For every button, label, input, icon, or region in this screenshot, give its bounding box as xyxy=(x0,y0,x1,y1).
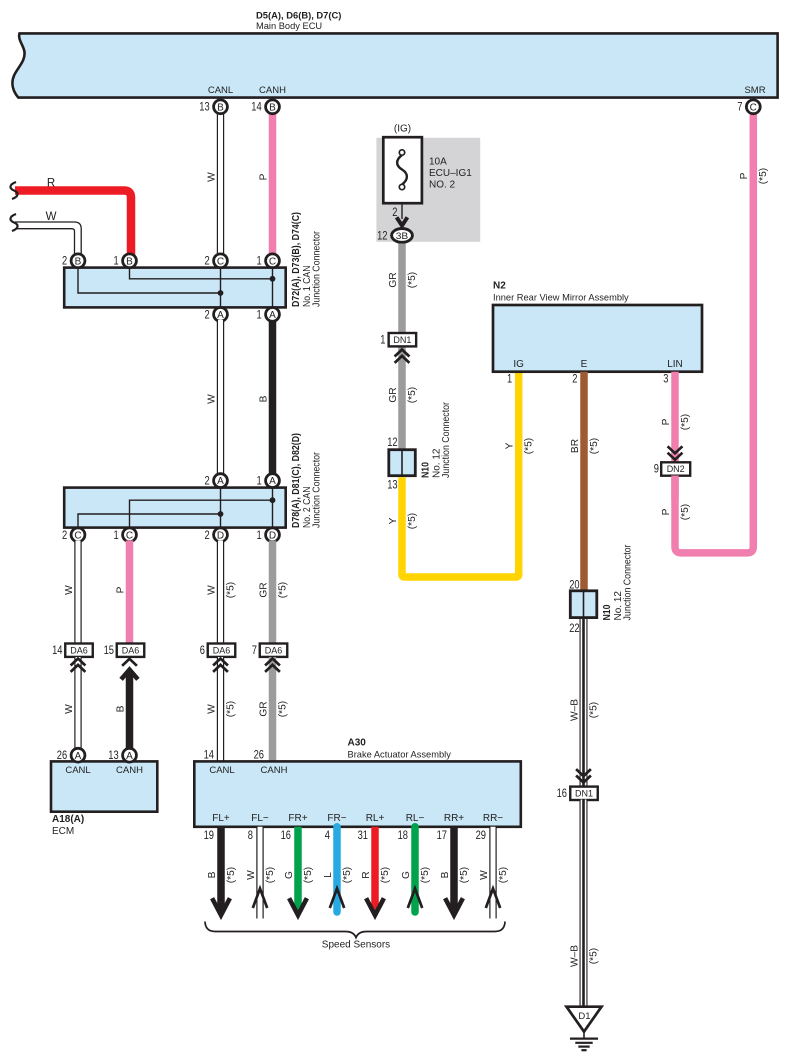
svg-text:NO. 2: NO. 2 xyxy=(429,180,456,191)
svg-text:N10: N10 xyxy=(602,604,613,620)
svg-text:CANL: CANL xyxy=(65,765,90,776)
svg-text:Y: Y xyxy=(388,517,399,524)
svg-text:W–B: W–B xyxy=(569,699,580,721)
svg-text:A: A xyxy=(269,476,276,487)
svg-text:W: W xyxy=(206,172,217,182)
svg-text:D: D xyxy=(269,530,276,541)
svg-text:C: C xyxy=(126,530,133,541)
svg-text:A18(A): A18(A) xyxy=(52,814,84,825)
svg-text:(*5): (*5) xyxy=(342,867,353,883)
svg-text:(*5): (*5) xyxy=(524,438,535,454)
svg-text:(*5): (*5) xyxy=(265,867,276,883)
svg-text:N2: N2 xyxy=(493,281,506,292)
svg-text:17: 17 xyxy=(437,830,447,842)
svg-text:31: 31 xyxy=(358,830,368,842)
svg-text:C: C xyxy=(750,102,757,113)
svg-text:(*5): (*5) xyxy=(380,867,391,883)
svg-text:1: 1 xyxy=(507,374,512,386)
svg-text:26: 26 xyxy=(57,750,67,762)
svg-text:W–B: W–B xyxy=(569,945,580,967)
svg-text:Junction Connector: Junction Connector xyxy=(312,451,323,528)
svg-text:C: C xyxy=(269,256,276,267)
svg-text:LIN: LIN xyxy=(667,359,683,370)
svg-text:29: 29 xyxy=(476,830,486,842)
svg-text:B: B xyxy=(440,871,451,878)
svg-text:D78(A), D81(C), D82(D): D78(A), D81(C), D82(D) xyxy=(291,433,302,528)
svg-text:W: W xyxy=(206,394,217,404)
svg-text:B: B xyxy=(115,705,126,712)
svg-text:DA6: DA6 xyxy=(265,645,283,655)
svg-text:(*5): (*5) xyxy=(588,702,599,718)
svg-text:13: 13 xyxy=(199,102,209,114)
svg-text:15: 15 xyxy=(104,645,114,657)
svg-text:14: 14 xyxy=(52,645,63,657)
svg-text:(*5): (*5) xyxy=(420,867,431,883)
svg-text:CANH: CANH xyxy=(116,765,143,776)
svg-text:C: C xyxy=(74,530,81,541)
svg-text:G: G xyxy=(401,871,412,879)
svg-text:A: A xyxy=(269,310,276,321)
svg-text:E: E xyxy=(581,359,588,370)
svg-text:CANH: CANH xyxy=(259,85,286,96)
svg-text:4: 4 xyxy=(325,830,331,842)
svg-text:(*5): (*5) xyxy=(758,168,769,184)
svg-text:SMR: SMR xyxy=(744,85,765,96)
svg-text:2: 2 xyxy=(205,475,210,487)
svg-text:(*5): (*5) xyxy=(225,582,236,598)
svg-text:CANH: CANH xyxy=(261,765,288,776)
svg-text:D: D xyxy=(217,530,224,541)
svg-text:1: 1 xyxy=(257,256,262,268)
svg-text:A30: A30 xyxy=(348,738,367,749)
svg-text:(*5): (*5) xyxy=(459,867,470,883)
svg-text:1: 1 xyxy=(257,530,262,542)
svg-text:(*5): (*5) xyxy=(680,504,691,520)
svg-text:12: 12 xyxy=(377,231,387,243)
svg-text:(*5): (*5) xyxy=(407,513,418,529)
svg-text:3B: 3B xyxy=(396,231,409,242)
svg-text:B: B xyxy=(258,395,269,402)
svg-text:P: P xyxy=(739,172,750,179)
svg-text:RL+: RL+ xyxy=(366,813,385,824)
svg-text:W: W xyxy=(64,704,75,714)
svg-text:8: 8 xyxy=(248,830,253,842)
svg-text:BR: BR xyxy=(570,439,581,453)
svg-text:FR+: FR+ xyxy=(288,813,307,824)
svg-text:RL−: RL− xyxy=(406,813,425,824)
svg-text:10A: 10A xyxy=(429,157,447,168)
svg-text:Brake Actuator Assembly: Brake Actuator Assembly xyxy=(348,750,452,760)
svg-text:2: 2 xyxy=(62,256,67,268)
svg-text:C: C xyxy=(217,256,224,267)
svg-text:(*5): (*5) xyxy=(277,701,288,717)
svg-text:CANL: CANL xyxy=(208,85,233,96)
svg-text:6: 6 xyxy=(200,645,205,657)
svg-text:1: 1 xyxy=(114,530,119,542)
svg-text:Junction Connector: Junction Connector xyxy=(623,544,634,621)
svg-text:DA6: DA6 xyxy=(122,645,140,655)
svg-text:Main Body ECU: Main Body ECU xyxy=(256,21,322,31)
svg-text:W: W xyxy=(206,704,217,714)
svg-text:FL+: FL+ xyxy=(212,813,230,824)
svg-text:(*5): (*5) xyxy=(589,438,600,454)
svg-text:13: 13 xyxy=(108,750,118,762)
svg-text:9: 9 xyxy=(654,464,659,476)
svg-text:B: B xyxy=(126,256,133,267)
svg-text:R: R xyxy=(47,178,55,190)
svg-text:(*5): (*5) xyxy=(498,867,509,883)
svg-text:16: 16 xyxy=(281,830,291,842)
svg-text:Junction Connector: Junction Connector xyxy=(441,401,452,478)
svg-text:Y: Y xyxy=(505,442,516,449)
svg-text:DN1: DN1 xyxy=(575,789,593,799)
svg-text:2: 2 xyxy=(205,530,210,542)
svg-text:A: A xyxy=(75,751,82,762)
svg-text:B: B xyxy=(269,102,276,113)
svg-text:Inner Rear View Mirror Assembl: Inner Rear View Mirror Assembly xyxy=(493,293,629,303)
svg-text:DN2: DN2 xyxy=(667,464,685,474)
svg-text:ECU–IG1: ECU–IG1 xyxy=(429,168,472,179)
svg-text:2: 2 xyxy=(62,530,67,542)
svg-text:FR−: FR− xyxy=(327,813,346,824)
svg-text:(*5): (*5) xyxy=(588,948,599,964)
svg-text:RR−: RR− xyxy=(483,813,503,824)
svg-text:(*5): (*5) xyxy=(226,867,237,883)
svg-text:GR: GR xyxy=(388,387,399,402)
svg-text:D5(A), D6(B), D7(C): D5(A), D6(B), D7(C) xyxy=(256,9,341,20)
svg-text:Junction Connector: Junction Connector xyxy=(312,230,323,307)
svg-text:14: 14 xyxy=(204,750,215,762)
svg-text:GR: GR xyxy=(258,582,269,597)
svg-text:DN1: DN1 xyxy=(393,335,411,345)
svg-text:13: 13 xyxy=(387,479,397,491)
svg-text:(*5): (*5) xyxy=(407,272,418,288)
svg-text:1: 1 xyxy=(257,475,262,487)
svg-text:A: A xyxy=(217,476,224,487)
svg-text:2: 2 xyxy=(572,374,577,386)
svg-text:B: B xyxy=(75,256,82,267)
svg-text:P: P xyxy=(661,418,672,425)
svg-text:RR+: RR+ xyxy=(444,813,464,824)
svg-text:26: 26 xyxy=(254,750,264,762)
svg-text:B: B xyxy=(217,102,224,113)
svg-text:DA6: DA6 xyxy=(213,645,231,655)
svg-text:W: W xyxy=(46,211,57,223)
svg-text:1: 1 xyxy=(257,309,262,321)
svg-text:1: 1 xyxy=(380,334,385,346)
svg-text:P: P xyxy=(258,173,269,180)
svg-text:7: 7 xyxy=(252,645,257,657)
svg-text:18: 18 xyxy=(398,830,408,842)
svg-text:W: W xyxy=(246,870,257,880)
svg-text:14: 14 xyxy=(251,102,262,114)
svg-text:3: 3 xyxy=(663,374,668,386)
svg-text:D72(A), D73(B), D74(C): D72(A), D73(B), D74(C) xyxy=(291,212,302,307)
svg-text:W: W xyxy=(206,585,217,595)
svg-text:N10: N10 xyxy=(421,462,432,478)
svg-text:(*5): (*5) xyxy=(277,582,288,598)
svg-text:W: W xyxy=(479,870,490,880)
svg-text:7: 7 xyxy=(737,102,742,114)
svg-text:2: 2 xyxy=(205,309,210,321)
svg-text:Speed Sensors: Speed Sensors xyxy=(322,940,390,951)
svg-text:1: 1 xyxy=(114,256,119,268)
svg-text:DA6: DA6 xyxy=(70,645,88,655)
svg-text:GR: GR xyxy=(388,272,399,287)
svg-text:12: 12 xyxy=(387,437,397,449)
svg-text:P: P xyxy=(115,586,126,593)
svg-text:22: 22 xyxy=(569,623,579,635)
svg-text:B: B xyxy=(207,871,218,878)
svg-text:(*5): (*5) xyxy=(225,701,236,717)
svg-text:CANL: CANL xyxy=(209,765,234,776)
svg-text:ECM: ECM xyxy=(52,826,74,837)
svg-text:FL−: FL− xyxy=(251,813,269,824)
svg-text:(*5): (*5) xyxy=(680,414,691,430)
svg-text:A: A xyxy=(217,310,224,321)
svg-text:(*5): (*5) xyxy=(407,387,418,403)
svg-text:(*5): (*5) xyxy=(303,867,314,883)
svg-text:GR: GR xyxy=(258,701,269,716)
svg-text:IG: IG xyxy=(513,359,524,370)
svg-text:L: L xyxy=(323,872,334,878)
svg-text:20: 20 xyxy=(569,579,579,591)
svg-text:W: W xyxy=(64,585,75,595)
svg-text:G: G xyxy=(284,871,295,879)
svg-text:D1: D1 xyxy=(578,1011,590,1022)
svg-text:A: A xyxy=(126,751,133,762)
svg-text:P: P xyxy=(661,508,672,515)
svg-text:2: 2 xyxy=(392,207,397,219)
svg-text:(IG): (IG) xyxy=(394,124,411,135)
svg-text:R: R xyxy=(361,871,372,878)
svg-text:16: 16 xyxy=(557,788,567,800)
svg-text:2: 2 xyxy=(205,256,210,268)
svg-text:19: 19 xyxy=(204,830,214,842)
